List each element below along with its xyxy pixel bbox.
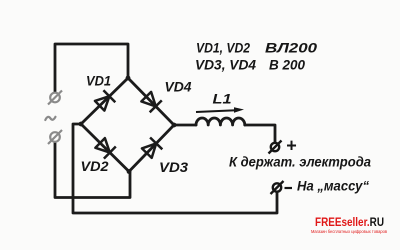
svg-text:VD3: VD3 xyxy=(159,159,188,175)
svg-text:К держат. электрода: К держат. электрода xyxy=(229,154,371,170)
AC terminal upper xyxy=(48,91,62,105)
svg-text:VD2: VD2 xyxy=(81,158,109,174)
AC terminal lower xyxy=(48,130,62,144)
masa output terminal xyxy=(271,181,284,194)
junction node bottom xyxy=(127,169,132,174)
junction node top xyxy=(126,76,131,81)
diode VD2 xyxy=(95,138,115,159)
wire lower AC terminal to bridge bottom xyxy=(55,143,130,198)
svg-text:VD3, VD4В 200: VD3, VD4В 200 xyxy=(195,57,305,73)
diode VD3 xyxy=(142,138,162,158)
wire right vertex to coil xyxy=(174,124,196,127)
junction node right xyxy=(172,123,177,128)
AC source tilde xyxy=(45,117,55,120)
wire left vertex to masa bus xyxy=(73,124,277,213)
svg-text:VD4: VD4 xyxy=(165,79,192,95)
bridge diamond wires xyxy=(81,78,174,172)
svg-text:VD1: VD1 xyxy=(86,73,111,89)
svg-text:+: + xyxy=(286,136,297,156)
diode VD4 xyxy=(141,92,161,112)
inductor L1 xyxy=(196,118,245,125)
svg-text:На „массу“: На „массу“ xyxy=(297,178,369,194)
svg-text:FREEseller.RU: FREEseller.RU xyxy=(315,215,384,229)
svg-text:L1: L1 xyxy=(213,91,232,107)
diode VD1 xyxy=(95,90,115,110)
plus output terminal xyxy=(269,141,282,154)
dash before masa label xyxy=(285,187,293,189)
svg-text:Магазин бесплатных цифровых то: Магазин бесплатных цифровых товаров xyxy=(311,229,388,234)
junction node left xyxy=(79,122,84,127)
wire coil to plus terminal xyxy=(245,125,275,142)
arrow under L1 xyxy=(196,110,236,112)
wire top loop: upper AC terminal to bridge top xyxy=(55,44,128,92)
